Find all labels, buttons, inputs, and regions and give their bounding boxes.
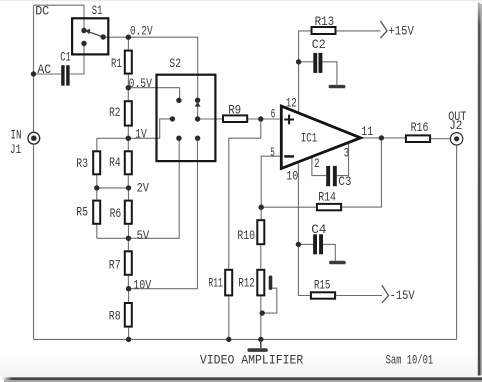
wire 10V node to R8 top [128,289,130,302]
svg-text:11: 11 [361,124,373,139]
wire feedback node to R14 left [261,206,316,208]
node bus R12 [258,337,263,342]
wire 0.5V node to S2 top-left contact [128,88,179,101]
wire R15 right to -15V arrow [336,295,382,297]
node output [379,135,384,140]
wire pin10 node to C4 left plate [298,243,313,245]
svg-text:2V: 2V [137,181,150,196]
svg-text:0.2V: 0.2V [130,24,153,39]
capacitor C1 [61,65,69,85]
wire R3 bottom to 2V row [96,175,98,188]
-15V arrow [382,285,389,303]
svg-text:1V: 1V [135,126,147,141]
resistor R12 [257,270,264,296]
wire J1 shield to ground bus [33,145,35,340]
wire C2 right plate to ground [322,62,337,85]
node 2V left [94,185,99,190]
capacitor C2 [313,53,322,73]
node AC junction [31,71,36,76]
node bus R8 [126,337,131,342]
wire R13 right to +15V arrow [337,30,381,32]
wire R9 to op-amp pin 6 [248,118,280,120]
wire R6 top stub [128,188,130,200]
wire op-amp output to R16 [360,137,405,139]
connector J1 [28,132,40,144]
right shadow border [478,3,481,376]
wire pin 2 to C3 [312,157,326,176]
S1 upper contact [81,28,86,33]
node 2V [126,185,131,190]
svg-text:C4: C4 [311,222,326,237]
wire R8 bottom to ground bus [128,328,130,340]
wire R1 bottom to 0.5V node [127,75,129,88]
svg-text:12: 12 [286,95,297,110]
ground near C4 [329,261,346,265]
wire 5V node to R7 top [127,238,129,250]
svg-text:R2: R2 [109,105,120,120]
wire R7 bottom to 10V node [127,276,129,289]
node noninverting input [258,116,263,121]
wire R5 top stub [96,188,98,200]
node inverting input [259,205,264,210]
wire R4 top stub [127,138,129,150]
svg-text:R8: R8 [109,309,121,324]
wire J2 shield to ground bus [456,146,458,340]
op-amp U1 triangle [281,106,360,168]
op-amp minus sign [284,155,294,158]
S2 top-right contact [195,98,200,103]
resistor R4 [125,151,132,174]
node 1V [126,136,131,141]
resistor R3 [93,151,100,174]
S2 bottom-left contact [176,136,181,141]
wire feedback node to R10 top [260,207,262,219]
resistor R13 [312,27,336,34]
svg-text:R7: R7 [109,257,121,272]
capacitor C4 [313,234,323,254]
wire S1 common to 0.2V node [103,36,128,38]
S1 lower contact [81,41,86,46]
switch S1 box [72,18,108,54]
wire AC node to C1 [34,73,62,75]
R12 trimmer bar [269,276,273,290]
ground near C2 [329,85,346,88]
svg-text:C1: C1 [60,50,71,65]
node pin10 C4 [296,242,301,247]
resistor R16 [406,135,430,142]
wire 10V node to S2 bottom-right contact [129,138,198,289]
wire 2V row [97,187,129,189]
svg-text:5V: 5V [137,228,150,243]
S1 common contact [101,34,106,39]
wire top DC path [34,5,85,31]
svg-text:2: 2 [314,156,320,171]
svg-text:6: 6 [271,106,276,121]
S2 top-left contact [176,98,181,103]
connector J2 [450,133,462,145]
svg-text:R4: R4 [109,155,121,170]
svg-text:J2: J2 [449,118,462,133]
svg-text:10V: 10V [133,278,151,293]
svg-text:R6: R6 [110,206,122,221]
+15V arrow [380,21,387,39]
wire R4 bottom to 2V node [127,175,129,188]
S2 bottom-right contact [195,136,200,141]
resistor R10 [257,220,264,244]
wire 1V row to S2 middle-left contact [97,119,172,138]
resistor R9 [223,115,247,122]
svg-text:R5: R5 [76,205,88,220]
wire R16 to J2 [431,138,450,140]
node 0.5V [126,85,131,90]
svg-text:R1: R1 [111,56,122,71]
svg-text:R15: R15 [314,278,330,293]
wire left main input [33,5,35,132]
wire ground bus [34,338,457,340]
S1 lever arrowhead [85,29,90,34]
node 10V [126,286,131,291]
resistor R14 [317,204,341,210]
wire R10 bottom to R12 top [260,245,262,269]
wire R12 wiper to bottom [262,288,277,313]
S2 middle-left contact [170,116,175,121]
svg-text:IC1: IC1 [301,131,318,146]
resistor R2 [125,101,132,125]
S1 lever [88,31,104,37]
svg-text:R9: R9 [228,103,241,118]
svg-text:J1: J1 [10,142,21,157]
svg-text:DC: DC [35,3,49,18]
resistor R1 [125,51,132,74]
svg-text:C3: C3 [338,174,351,189]
wire R6 bottom to 5V node [128,225,130,239]
wire 0.2V node to S2 top-right contact [128,37,197,100]
svg-text:R13: R13 [315,14,335,29]
wire noninverting node down to R11 [229,119,261,269]
resistor R11 [225,270,232,296]
S2 middle-right contact [195,116,200,121]
svg-text:R11: R11 [208,276,223,291]
S2 wiper arrowhead [195,102,201,107]
wire C1 to S1 lower contact [70,43,84,74]
svg-text:IN: IN [10,128,21,143]
wire 5V row to S2 bottom-left contact [97,138,179,238]
node R12 wiper bottom [260,310,265,315]
wire R14 right to output node [342,138,381,207]
svg-text:C2: C2 [312,37,326,52]
node pin12 C2 [296,59,301,64]
wire pin 10 supply dropper [298,162,310,296]
node 5V [126,236,131,241]
svg-text:R14: R14 [318,189,336,204]
svg-text:S1: S1 [92,3,103,18]
svg-text:VIDEO AMPLIFIER: VIDEO AMPLIFIER [200,353,304,368]
wire R2 bottom to 1V node [127,127,129,139]
resistor R15 [311,292,335,298]
resistor R8 [125,303,132,327]
svg-text:0.5V: 0.5V [129,76,153,91]
resistor R5 [93,201,100,224]
svg-text:R16: R16 [411,120,429,135]
wire 0.2V node to R1 top [127,37,129,49]
svg-text:S2: S2 [169,56,181,71]
wire pin12 node to C2 left plate [299,61,314,63]
svg-text:Sam 10/01: Sam 10/01 [386,353,434,368]
node bus R11 [226,337,231,342]
capacitor C3 [326,166,337,186]
wire op-amp pin 5 to feedback node [261,156,280,207]
wire S2 wiper stem [197,106,199,119]
wire S2 middle-right contact to R9 [198,118,222,120]
wire pin 3 to C3 [337,142,349,175]
svg-text:3: 3 [344,146,349,161]
svg-text:R10: R10 [237,228,255,243]
wire R5 bottom to 5V row [96,225,98,239]
svg-text:AC: AC [37,62,51,77]
ground main (bottom) [260,339,262,348]
wire pin 12 supply riser [299,31,311,114]
wire R12 bottom to ground bus [260,296,262,339]
wire 0.5V node to R2 top [127,88,129,101]
wire R3 top stub [96,138,98,150]
svg-text:-15V: -15V [390,288,415,303]
svg-text:R3: R3 [76,156,88,171]
resistor R6 [125,201,132,224]
svg-text:R12: R12 [238,276,255,291]
op-amp plus sign [284,115,294,125]
bottom shadow border [12,377,482,380]
switch S2 box [157,75,216,161]
svg-text:10: 10 [286,169,298,184]
node 0.2V [126,35,131,40]
resistor R7 [125,251,132,274]
wire R11 bottom to ground bus [228,296,230,339]
wire C4 right plate to ground [323,244,335,260]
svg-text:5: 5 [270,145,275,160]
svg-text:+15V: +15V [388,23,414,38]
